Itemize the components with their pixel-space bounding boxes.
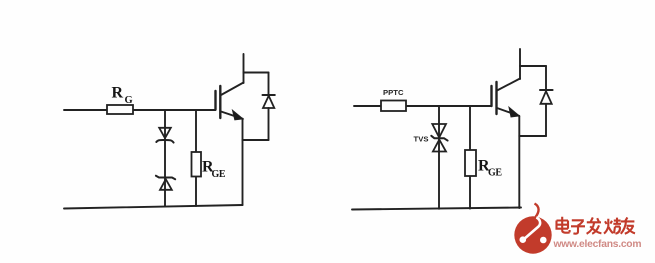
- svg-text:PPTC: PPTC: [383, 88, 404, 97]
- svg-text:www.elecfans.com: www.elecfans.com: [553, 239, 642, 250]
- svg-text:GE: GE: [212, 169, 226, 180]
- svg-text:GE: GE: [488, 168, 502, 179]
- svg-text:TVS: TVS: [414, 135, 429, 144]
- svg-text:G: G: [125, 95, 133, 106]
- svg-text:R: R: [112, 85, 124, 102]
